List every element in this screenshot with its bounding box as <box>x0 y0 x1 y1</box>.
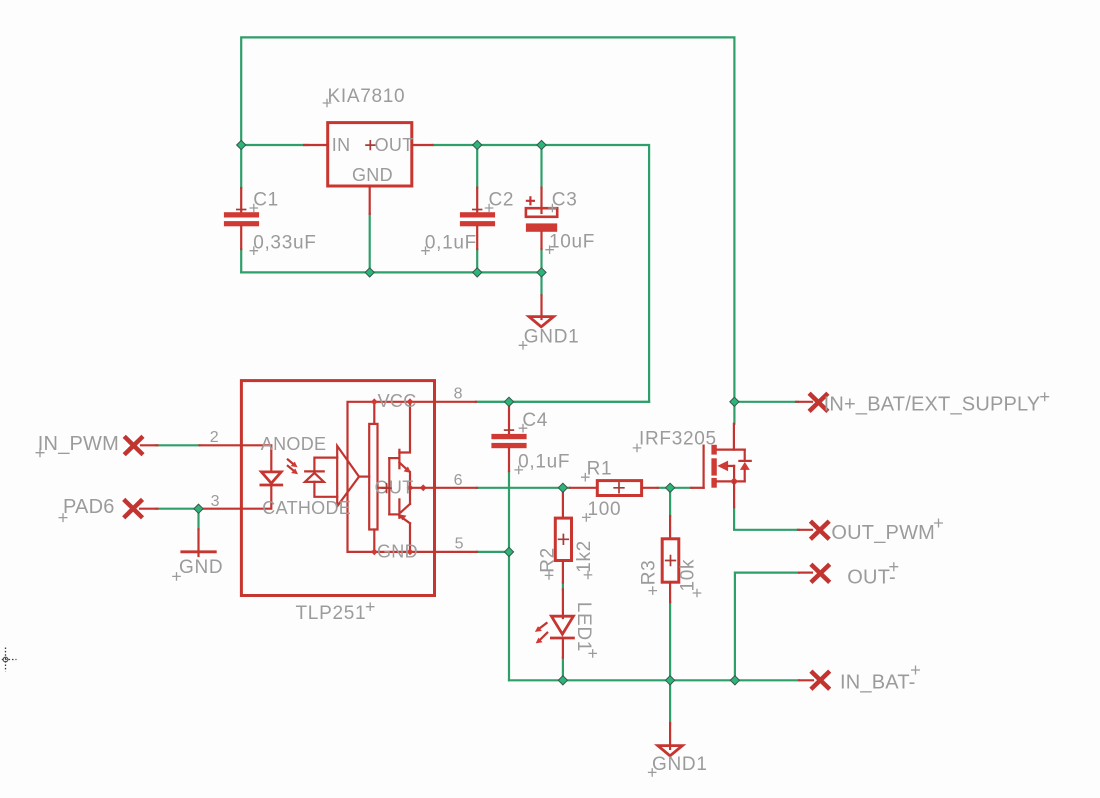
capacitor C1 <box>224 188 317 255</box>
pin <box>540 295 542 319</box>
C4 plates <box>491 434 526 439</box>
internal junction dots <box>371 398 378 405</box>
voltage regulator U KIA7810 <box>304 86 433 214</box>
wire pin5 row <box>477 551 509 553</box>
source junction dot <box>730 477 738 485</box>
wire PAD6 stub <box>156 508 199 510</box>
wire GND branch <box>197 509 199 530</box>
wire pin6 row <box>477 487 570 489</box>
node C1/IN <box>237 140 246 149</box>
C3 pin top <box>540 188 542 213</box>
wire MOSFET drain link <box>733 402 735 424</box>
svg-text:8: 8 <box>454 385 463 402</box>
wire C3 stubs <box>540 145 542 188</box>
C1 origin cross <box>236 209 246 211</box>
node LED1 bus <box>558 676 567 685</box>
terminal X OUT- <box>799 562 898 588</box>
C2 origin cross <box>472 209 482 211</box>
internal VCC rail <box>348 402 435 552</box>
bottom stub <box>562 561 564 583</box>
triangle <box>529 317 554 327</box>
wire R3 top stub <box>669 488 671 516</box>
input LED triangle <box>261 472 281 483</box>
label cross <box>323 99 332 108</box>
svg-text:R1: R1 <box>587 459 613 480</box>
supply GND1 (bottom) <box>648 723 708 776</box>
left stub <box>570 487 598 489</box>
svg-text:3: 3 <box>211 493 220 510</box>
wire IN_PWM stub <box>156 444 200 446</box>
svg-text:GND: GND <box>352 165 393 185</box>
node C3 top <box>537 140 546 149</box>
bar <box>182 550 216 553</box>
svg-text:VCC: VCC <box>378 391 417 411</box>
body diode <box>744 450 746 461</box>
wire C1 column <box>240 145 242 188</box>
capacitor C2 <box>421 188 514 255</box>
pin 2 stub <box>200 444 242 446</box>
terminal X IN_PWM <box>36 433 158 457</box>
supply GND1 (top) <box>519 295 580 349</box>
wire LED1 to bus <box>562 658 564 681</box>
wire pin8 row <box>476 401 649 403</box>
triangle <box>658 746 683 756</box>
svg-text:OUT_PWM: OUT_PWM <box>831 522 935 544</box>
terminal X IN+_BAT/EXT_SUPPLY <box>796 392 1049 415</box>
svg-text:0,33uF: 0,33uF <box>253 232 316 253</box>
ground symbol GND (input side) <box>172 529 223 580</box>
drain pin <box>733 424 735 450</box>
node R3 bus <box>666 676 675 685</box>
photodiode cathode bar <box>305 470 324 472</box>
C3 bottom plate <box>526 223 557 231</box>
svg-text:IN: IN <box>332 135 351 155</box>
diode LED1 <box>535 589 597 657</box>
C3 pin bottom <box>540 232 542 249</box>
C2 pin top <box>476 188 478 213</box>
wire top bus <box>241 37 734 401</box>
resistor R3 <box>639 516 702 602</box>
svg-text:TLP251: TLP251 <box>296 603 367 624</box>
C4 origin cross <box>504 429 514 431</box>
lower transistor <box>409 488 411 504</box>
source pin <box>733 481 735 507</box>
anode wire + input LED <box>241 445 271 472</box>
node C2 bottom <box>473 268 482 277</box>
pin 8 stub <box>435 401 476 403</box>
svg-text:GND: GND <box>377 541 418 561</box>
capacitor C3 (polarized) <box>526 188 595 254</box>
svg-text:KIA7810: KIA7810 <box>328 86 406 107</box>
node C4/pin5 <box>504 547 513 556</box>
svg-text:IN_PWM: IN_PWM <box>38 433 119 455</box>
capacitor C4 <box>491 402 570 474</box>
wire IN row <box>241 144 308 146</box>
svg-text:OUT-: OUT- <box>847 566 896 588</box>
wire IN+ terminal <box>734 401 798 403</box>
svg-text:IN+_BAT/EXT_SUPPLY: IN+_BAT/EXT_SUPPLY <box>824 393 1041 415</box>
C1 pin top <box>240 188 242 212</box>
svg-text:CATHODE: CATHODE <box>262 498 351 518</box>
gate bracket <box>378 487 390 489</box>
wire C4/GND column <box>508 471 510 680</box>
node C2 top <box>473 140 482 149</box>
svg-text:GND1: GND1 <box>652 754 708 775</box>
bulk arrow <box>717 461 728 472</box>
input LED cathode bar <box>261 484 282 487</box>
upper transistor <box>399 402 410 453</box>
svg-text:IRF3205: IRF3205 <box>639 429 717 450</box>
pin 6 stub <box>435 487 478 489</box>
pin 3 stub <box>203 508 241 510</box>
wire R1 right to gate <box>658 487 692 489</box>
svg-text:10k: 10k <box>677 559 698 592</box>
node reg GND <box>365 268 374 277</box>
light arrow 2 <box>288 466 294 471</box>
C1 plates <box>224 212 259 217</box>
transistor Q IRF3205 <box>633 424 751 507</box>
svg-text:6: 6 <box>454 472 463 489</box>
pin <box>197 529 199 556</box>
gate bar <box>702 446 704 488</box>
origin cross U1 <box>365 140 375 150</box>
wire GND1 bottom stub <box>669 680 671 723</box>
photodiode triangle <box>305 473 324 482</box>
TLP251 body <box>241 381 434 596</box>
terminal X IN_BAT- <box>799 666 920 694</box>
body <box>597 481 641 496</box>
svg-text:OUT: OUT <box>375 477 414 497</box>
svg-text:R2: R2 <box>538 547 559 573</box>
wire upper gnd bus <box>241 271 541 273</box>
svg-text:GND1: GND1 <box>524 327 580 348</box>
C3 top plate hollow <box>526 208 557 217</box>
svg-text:100: 100 <box>588 499 622 520</box>
top stub <box>669 516 671 539</box>
wire R3 bottom stub <box>669 602 671 680</box>
node IN+ bus <box>730 397 739 406</box>
emission arrow 2 <box>541 633 548 640</box>
origin cross <box>558 534 569 545</box>
wire reg gnd stub <box>369 214 371 273</box>
svg-text:LED1: LED1 <box>573 602 594 652</box>
svg-text:GND: GND <box>179 557 223 578</box>
wire C2 stubs <box>476 145 478 188</box>
bottom horizontal <box>717 480 745 482</box>
top stub <box>562 490 564 518</box>
resistor R2 <box>538 490 596 583</box>
bottom pin <box>562 638 564 658</box>
C2 pin bottom <box>476 226 478 249</box>
body <box>555 518 571 560</box>
triangle <box>551 616 573 634</box>
wire GND1 top stub <box>540 272 542 295</box>
wire OUT row to down-link <box>433 145 649 402</box>
origin cross <box>613 482 624 493</box>
C4 pin bottom <box>508 448 510 471</box>
svg-text:5: 5 <box>455 535 464 552</box>
node R3 top <box>666 483 675 492</box>
OUT pin inner wire <box>410 487 435 489</box>
svg-text:R3: R3 <box>639 560 660 586</box>
photodiode bracket <box>314 458 337 472</box>
pin OUT stub <box>412 144 433 146</box>
cathode bar <box>551 637 573 640</box>
gate pin <box>691 487 703 489</box>
pin 5 stub <box>435 551 478 553</box>
bottom stub <box>669 582 671 602</box>
svg-text:ANODE: ANODE <box>261 434 327 454</box>
terminal X PAD6 <box>59 496 158 522</box>
light arrow 1 <box>288 460 293 464</box>
KIA7810 body <box>328 123 412 186</box>
top horizontal <box>717 449 745 451</box>
body <box>662 539 679 582</box>
terminal X OUT_PWM <box>798 519 943 545</box>
wire bottom bus <box>509 679 799 681</box>
pin GND stub <box>369 186 371 214</box>
amp triangle <box>337 446 359 506</box>
node PAD6/GND <box>194 504 203 513</box>
top pin <box>562 589 564 618</box>
channel bars <box>711 445 716 455</box>
resistor R1 <box>570 459 658 522</box>
C3 plus mark <box>527 197 534 204</box>
optocoupler U TLP251 <box>200 381 478 624</box>
svg-text:IN_BAT-: IN_BAT- <box>840 672 916 694</box>
svg-text:1k2: 1k2 <box>574 540 595 573</box>
C4 pin top <box>508 402 510 434</box>
wire R2-LED link <box>562 583 564 590</box>
svg-text:2: 2 <box>210 429 219 446</box>
part origin cross <box>382 483 392 493</box>
node C3 bottom <box>537 268 546 277</box>
driver stage rect <box>373 402 375 424</box>
svg-text:PAD6: PAD6 <box>63 496 115 518</box>
amp output tick <box>359 476 369 478</box>
right stub <box>642 487 658 489</box>
sheet origin dotted cross <box>0 648 17 672</box>
wire OUT- <box>735 573 799 681</box>
emission arrow 1 <box>540 623 547 628</box>
svg-text:10uF: 10uF <box>549 231 595 252</box>
svg-text:0,1uF: 0,1uF <box>425 232 477 253</box>
junction dots (green) <box>194 140 740 685</box>
node OUT- bus <box>730 676 739 685</box>
C2 plates <box>460 212 495 217</box>
node R2 top <box>558 483 567 492</box>
C1 pin bottom <box>240 226 242 249</box>
pin IN stub <box>304 144 328 146</box>
svg-text:OUT: OUT <box>375 135 414 155</box>
pin <box>669 723 671 749</box>
svg-text:0,1uF: 0,1uF <box>518 452 570 473</box>
node C4/VCC <box>504 397 513 406</box>
wire OUT_PWM <box>734 507 799 530</box>
origin cross <box>665 555 676 566</box>
cathode wire <box>241 485 271 509</box>
